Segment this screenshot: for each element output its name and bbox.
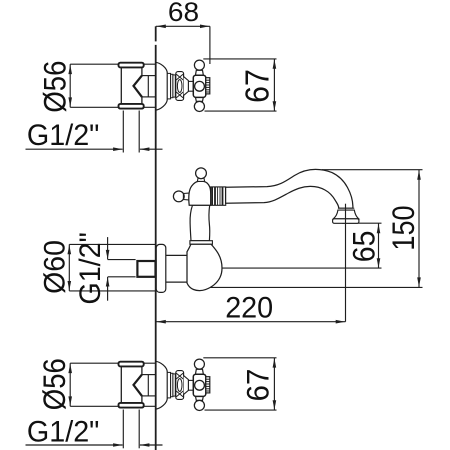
svg-text:Ø60: Ø60	[38, 240, 71, 294]
svg-text:Ø56: Ø56	[36, 358, 72, 410]
svg-text:G1/2": G1/2"	[74, 232, 107, 305]
svg-text:67: 67	[239, 69, 276, 103]
svg-text:65: 65	[345, 231, 381, 263]
svg-text:G1/2": G1/2"	[27, 119, 100, 152]
svg-text:150: 150	[385, 205, 421, 250]
svg-text:68: 68	[168, 0, 199, 27]
svg-text:G1/2": G1/2"	[27, 416, 100, 449]
svg-text:220: 220	[225, 291, 273, 324]
svg-text:Ø56: Ø56	[37, 61, 73, 113]
svg-text:67: 67	[240, 369, 276, 402]
